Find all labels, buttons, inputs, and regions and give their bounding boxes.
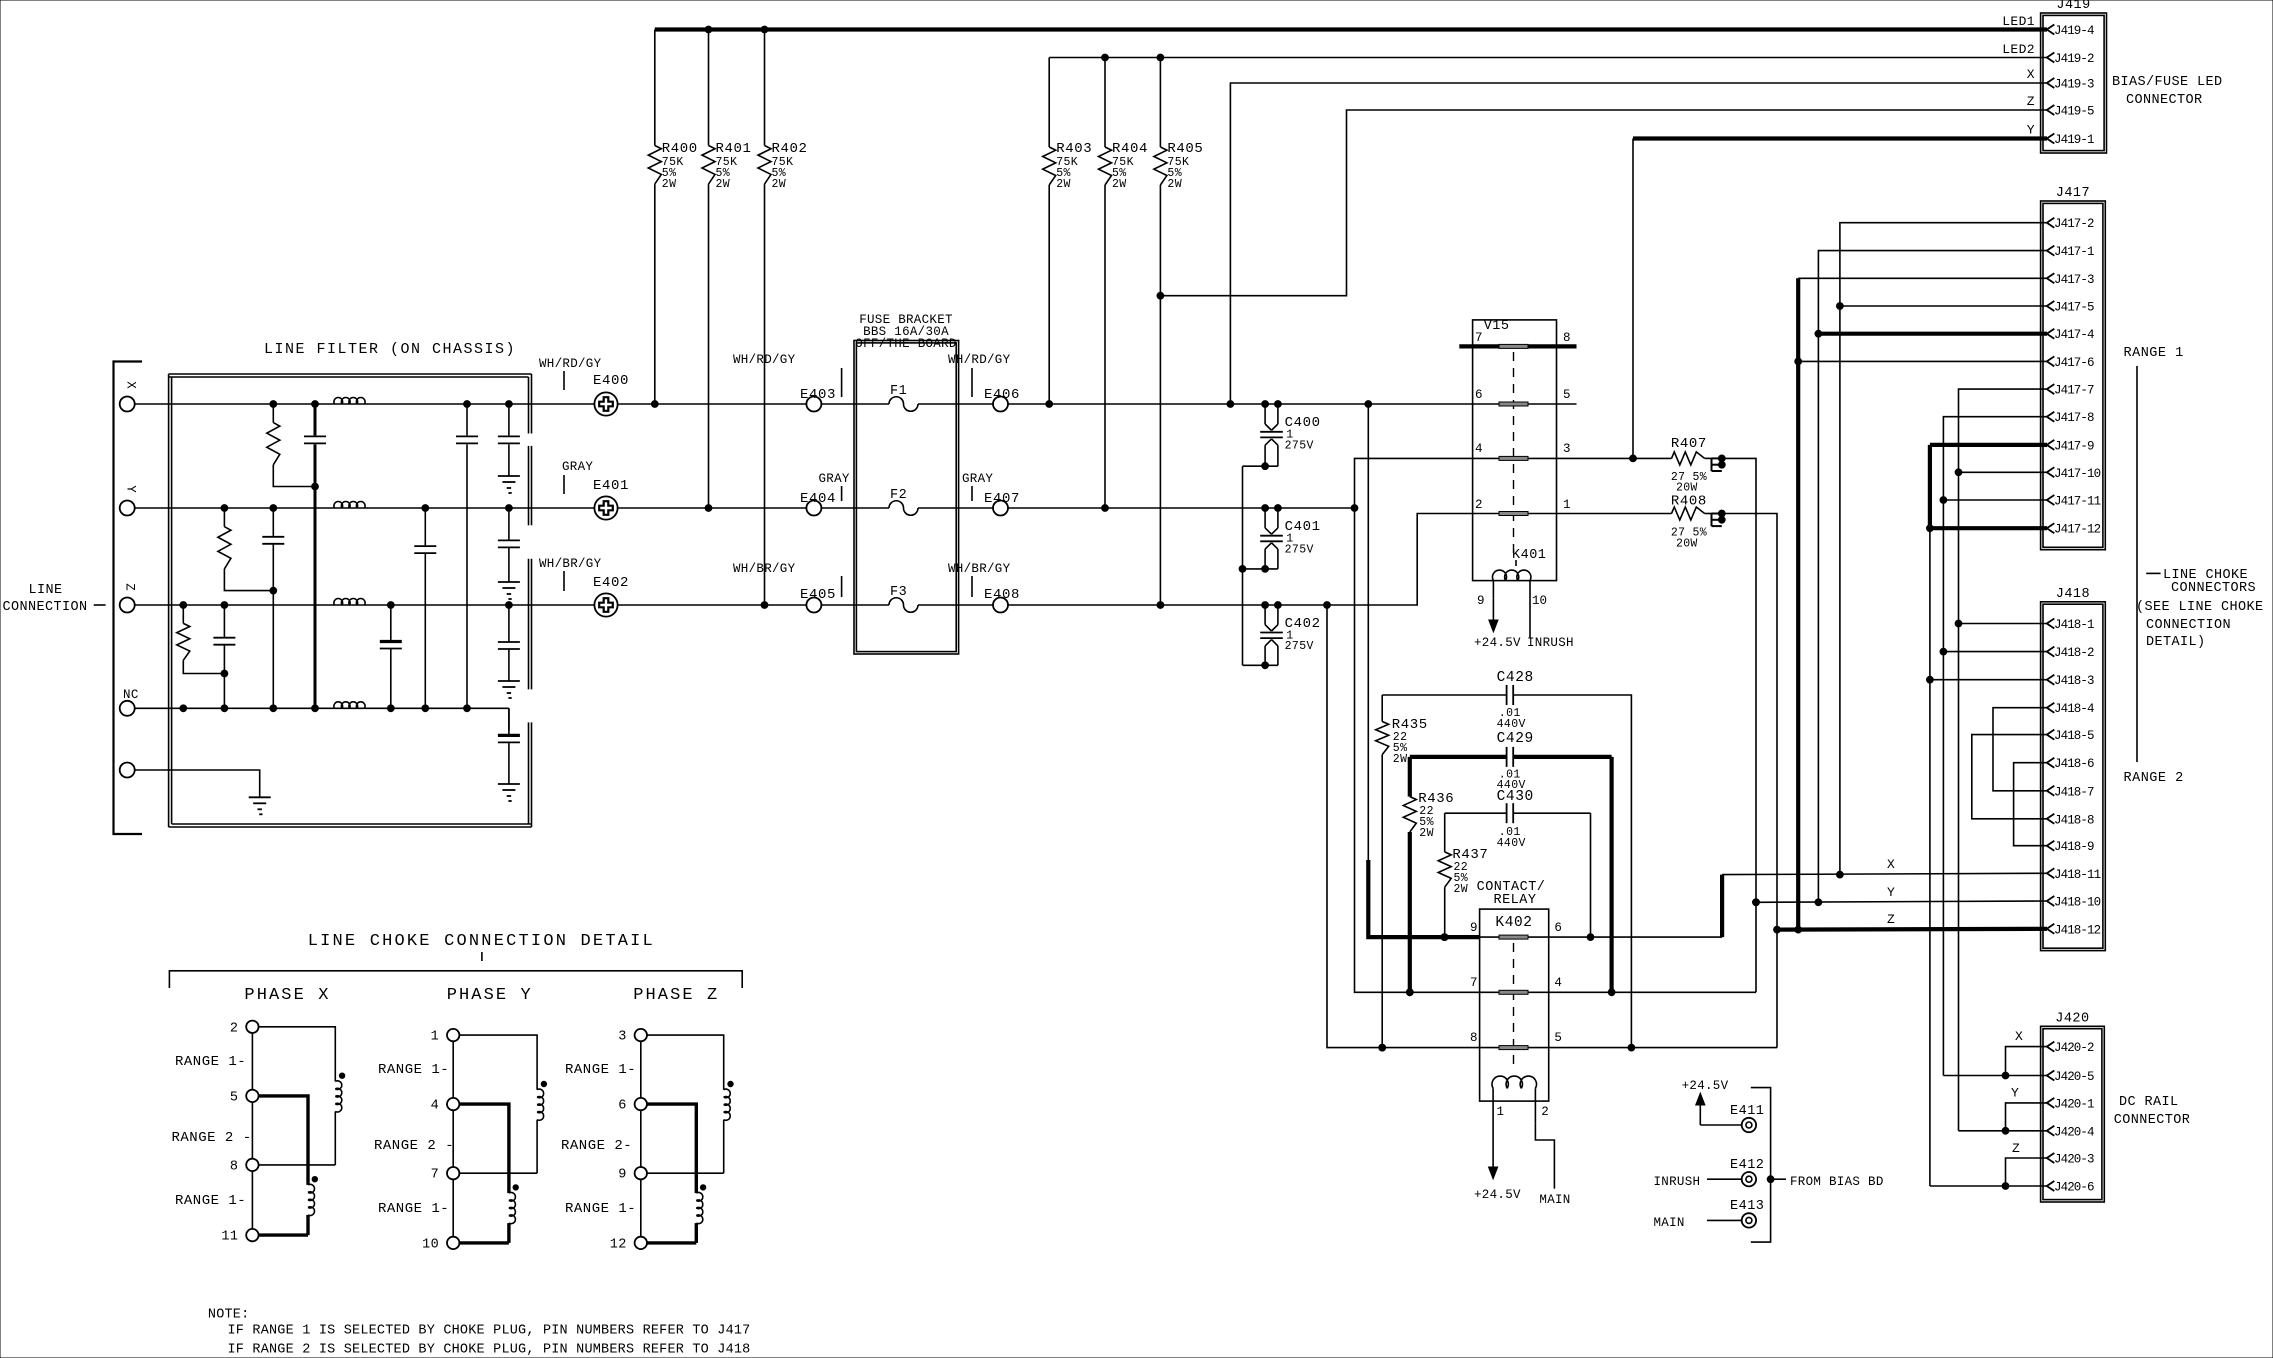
svg-text:J418-7: J418-7 (2054, 785, 2094, 799)
svg-text:J419-4: J419-4 (2054, 24, 2094, 38)
resistor filter Z (177, 605, 225, 674)
svg-text:OFF/THE BOARD: OFF/THE BOARD (855, 337, 956, 351)
capacitor filter NC-gnd (498, 708, 520, 784)
relay K402 dashed line (1513, 943, 1515, 1066)
node terminal Z (120, 583, 137, 612)
node terminal X (120, 381, 138, 411)
svg-text:J419: J419 (2056, 0, 2090, 13)
resistor R402 (758, 30, 808, 606)
svg-text:F1: F1 (890, 384, 907, 399)
node terminal GND-bottom (120, 763, 135, 778)
svg-text:DETAIL): DETAIL) (2146, 635, 2206, 650)
resistor R436 (1403, 757, 1454, 992)
wire Y to F2 (821, 507, 889, 509)
inductor phase Z choke (610, 1029, 733, 1253)
inductor filter Z (334, 599, 365, 605)
node J419-3 X junction (1227, 401, 1234, 408)
node Z-colB junction (221, 602, 228, 609)
svg-text:10: 10 (1532, 594, 1547, 608)
node Y-res to Y-cap junction (270, 587, 277, 594)
wire J419-1 Y lead (1633, 139, 2047, 459)
svg-text:J417-8: J417-8 (2054, 411, 2094, 425)
node R435-pin8row junction (1379, 1044, 1386, 1051)
wire J420-5 lead (1943, 1075, 2047, 1077)
svg-text:FROM BIAS BD: FROM BIAS BD (1790, 1175, 1884, 1189)
node C401 top leads (1262, 505, 1282, 512)
svg-text:J420-6: J420-6 (2054, 1181, 2094, 1195)
svg-text:R400: R400 (662, 141, 698, 157)
svg-text:RANGE 1-: RANGE 1- (378, 1062, 449, 1078)
connector J420 (2041, 1011, 2105, 1202)
capacitor filter Z-gnd (498, 605, 520, 681)
node K402 pin9 junction (1441, 934, 1448, 941)
capacitor filter Z-NC (213, 605, 235, 708)
svg-text:2W: 2W (1393, 753, 1408, 766)
node R405-J419-5 junction (1157, 292, 1164, 299)
svg-text:2W: 2W (716, 178, 731, 191)
svg-text:MAIN: MAIN (1539, 1193, 1570, 1207)
node Y-colC junction (270, 505, 277, 512)
node DC RAIL CONNECTOR label (2114, 1095, 2191, 1128)
node terminal E403 (733, 353, 842, 412)
node Y-cap NC junction (270, 705, 277, 712)
relay V15 contact 7-8 (1459, 331, 1576, 348)
svg-text:R404: R404 (1112, 141, 1148, 157)
wire Z to K402 pin8 (1327, 605, 1480, 1048)
svg-text:WH/RD/GY: WH/RD/GY (539, 357, 602, 371)
node +24.5V E411 source (1682, 1079, 1729, 1125)
svg-text:6: 6 (1475, 388, 1483, 402)
wire J418-1 lead (1959, 623, 2048, 625)
svg-text:J419-3: J419-3 (2054, 78, 2094, 92)
fuse F1 (889, 384, 918, 411)
node X-colC junction (270, 401, 277, 408)
svg-text:J419-1: J419-1 (2054, 133, 2094, 147)
node Z-colA junction (180, 602, 187, 609)
wire V15 pin3 to R407 (1557, 457, 1672, 459)
svg-text:WH/BR/GY: WH/BR/GY (948, 562, 1011, 576)
svg-text:9: 9 (1470, 921, 1478, 935)
node terminal E412 (1730, 1158, 1764, 1186)
svg-text:J418-3: J418-3 (2054, 674, 2094, 688)
wire K401 pin10 INRUSH (1527, 598, 1574, 650)
resistor R404 (1099, 58, 1149, 509)
svg-text:R405: R405 (1167, 141, 1203, 157)
svg-text:IF RANGE 1 IS SELECTED BY CHOK: IF RANGE 1 IS SELECTED BY CHOKE PLUG, PI… (228, 1324, 751, 1339)
svg-text:6: 6 (1554, 921, 1562, 935)
node R400-X junction (651, 401, 658, 408)
node J417-4 junction (1815, 330, 1822, 337)
connector J417 (2041, 186, 2106, 550)
wire J418-4 to J418-7 (1993, 708, 2047, 791)
svg-text:2: 2 (1475, 498, 1483, 512)
resistor R408 (1671, 494, 1712, 551)
svg-text:J417-2: J417-2 (2054, 217, 2094, 231)
svg-text:J418-9: J418-9 (2054, 840, 2094, 854)
svg-text:9: 9 (618, 1168, 627, 1183)
node C430-pin6row junction (1587, 934, 1594, 941)
svg-text:MAIN: MAIN (1654, 1216, 1685, 1230)
node Xrow-J417 junction (1837, 871, 1844, 878)
jumper R408 block (1712, 510, 1726, 526)
svg-text:11: 11 (221, 1230, 238, 1245)
inductor phase X choke (221, 1021, 344, 1245)
node Y-colH junction (506, 505, 513, 512)
wire chassis bottom (135, 770, 260, 797)
svg-text:V15: V15 (1484, 319, 1510, 334)
relay coil K402 (1492, 1076, 1549, 1123)
wire C401 bottom (1243, 568, 1278, 570)
node C400 top leads (1262, 401, 1282, 408)
wire F1 to E406 (918, 403, 993, 405)
resistor R405 (1154, 58, 1204, 606)
node X-colD junction (312, 401, 319, 408)
node PHASE Y title (447, 986, 533, 1005)
wire C402 bottom (1243, 664, 1278, 666)
wire bias bracket (1751, 1088, 1771, 1243)
wire X E400-E403 (618, 403, 806, 405)
wire K402 pin5 row (1549, 1047, 1777, 1049)
node RANGE 1 label (2124, 346, 2184, 361)
svg-text:2W: 2W (1167, 178, 1182, 191)
capacitor C400 (1260, 404, 1320, 466)
svg-text:E406: E406 (984, 387, 1020, 403)
node phase X RANGE labels (172, 1054, 252, 1209)
ground filter Z (498, 681, 520, 698)
svg-text:3: 3 (618, 1030, 627, 1045)
svg-text:RANGE 1: RANGE 1 (2124, 346, 2184, 361)
node terminal E407 (962, 472, 1020, 516)
svg-text:GRAY: GRAY (819, 472, 850, 486)
wire NC corner cap lead (508, 708, 510, 730)
svg-text:2W: 2W (1454, 883, 1469, 896)
svg-text:E407: E407 (984, 491, 1020, 507)
wire J417-4 stub (1818, 332, 2047, 336)
svg-text:J418-2: J418-2 (2054, 646, 2094, 660)
svg-text:J417-4: J417-4 (2054, 328, 2094, 342)
node Y end junction (1351, 505, 1358, 512)
svg-text:2: 2 (1541, 1105, 1549, 1119)
wire C400 bottom (1243, 465, 1278, 467)
relay K402 contact 9-6 (1470, 921, 1562, 939)
svg-text:RANGE 2-: RANGE 2- (561, 1138, 632, 1154)
svg-text:WH/BR/GY: WH/BR/GY (539, 557, 602, 571)
node terminal Y (120, 485, 138, 515)
ground filter X (498, 476, 520, 493)
wire J420-1 lead (2006, 1086, 2048, 1131)
wire LED2 bus (1049, 57, 2047, 59)
wire NC line (135, 707, 509, 709)
svg-text:DC RAIL: DC RAIL (2119, 1095, 2179, 1110)
svg-text:X: X (1887, 857, 1895, 872)
svg-text:J417-9: J417-9 (2054, 439, 2094, 453)
node Y-cap2 NC junction (422, 705, 429, 712)
node J417-6 junction (1795, 358, 1802, 365)
svg-text:10: 10 (422, 1237, 439, 1252)
capacitor C428 (1382, 670, 1631, 1048)
fuse F3 (889, 585, 918, 612)
node terminal E406 (948, 353, 1020, 412)
wire J420-2 lead (2006, 1029, 2048, 1076)
node LED1-R401 junction (705, 26, 712, 33)
svg-text:(SEE LINE CHOKE: (SEE LINE CHOKE (2136, 600, 2264, 615)
node LINE FILTER title (264, 341, 516, 358)
wire X phase line (135, 403, 594, 405)
node terminal E404 (800, 472, 850, 516)
svg-text:LINE FILTER (ON CHASSIS): LINE FILTER (ON CHASSIS) (264, 341, 516, 358)
svg-text:J420-4: J420-4 (2054, 1125, 2094, 1139)
node BIAS/FUSE LED CONNECTOR label (2112, 75, 2223, 108)
wire line-connection bracket (114, 362, 143, 835)
node J418-3 junction (1927, 676, 1934, 683)
node J418-2 junction (1940, 648, 1947, 655)
svg-text:C430: C430 (1497, 789, 1534, 805)
node K402 pin8 junction (1379, 1044, 1386, 1051)
svg-text:J417-6: J417-6 (2054, 356, 2094, 370)
line filter enclosure box (169, 374, 532, 827)
node X-cap2 NC junction (464, 705, 471, 712)
node C402 bottom junction (1262, 662, 1269, 669)
node K402 pin7 junction (1406, 989, 1413, 996)
svg-text:WH/RD/GY: WH/RD/GY (948, 353, 1011, 367)
svg-text:E403: E403 (800, 387, 836, 403)
node X-colH junction (506, 401, 513, 408)
svg-text:INRUSH: INRUSH (1654, 1175, 1701, 1189)
node LINE CONNECTION label (2, 583, 105, 615)
svg-text:3: 3 (1563, 442, 1571, 456)
wire Z E402-E405 (618, 604, 806, 606)
wire R407 output (1722, 458, 1756, 992)
node J418-1 junction (1955, 620, 1962, 627)
svg-text:4: 4 (1475, 442, 1483, 456)
svg-text:LED1: LED1 (2002, 14, 2035, 29)
svg-text:5: 5 (1554, 1031, 1562, 1045)
node RANGE 2 label (2124, 771, 2184, 786)
node R436-pin7row junction (1406, 989, 1413, 996)
capacitor C402 (1260, 605, 1320, 665)
node J419-1 pin3 junction (1630, 455, 1637, 462)
svg-text:Y: Y (2011, 1086, 2019, 1101)
node Zrow-J417 junction (1795, 926, 1802, 933)
svg-text:NC: NC (123, 688, 139, 702)
wire J418-3 lead (1930, 679, 2047, 681)
node Z-cap2 NC junction (387, 705, 394, 712)
wire J417-9 lead (1930, 445, 2047, 680)
relay V15 contact 4-3 (1355, 442, 1571, 992)
svg-text:E402: E402 (593, 575, 629, 591)
svg-text:CONNECTOR: CONNECTOR (2114, 1113, 2191, 1128)
node terminal E411 (1730, 1104, 1764, 1132)
relay K402 contact 8-5 (1470, 1031, 1562, 1050)
svg-text:6: 6 (618, 1099, 627, 1114)
node C400 bottom junction (1262, 463, 1269, 470)
wire K402 pin6 row (1549, 875, 1722, 938)
wire Z row to J418-12 (1777, 912, 2047, 930)
svg-text:J417-7: J417-7 (2054, 384, 2094, 398)
svg-text:E408: E408 (984, 587, 1020, 603)
resistor filter Y (218, 508, 273, 591)
jumper R407 block (1712, 455, 1726, 471)
svg-text:Z: Z (123, 583, 137, 591)
svg-text:J418-6: J418-6 (2054, 757, 2094, 771)
capacitor C429 (1410, 731, 1612, 992)
svg-text:J418-1: J418-1 (2054, 618, 2094, 632)
node MAIN label (1654, 1216, 1742, 1230)
node Z-colE junction (387, 602, 394, 609)
node X-res to X-cap junction (312, 483, 319, 490)
svg-text:R407: R407 (1671, 436, 1707, 452)
wire J417-11 stub (1943, 499, 2047, 501)
svg-text:CONNECTION: CONNECTION (2146, 618, 2231, 633)
node Y-colF junction (422, 505, 429, 512)
wire J417-3 lead (1798, 278, 2047, 929)
node Z-colH junction (506, 602, 513, 609)
wire F3 to E408 (918, 604, 993, 606)
svg-text:12: 12 (610, 1237, 627, 1252)
svg-text:J420-3: J420-3 (2054, 1153, 2094, 1167)
svg-text:J419-5: J419-5 (2054, 105, 2094, 119)
wire F2 to E407 (918, 507, 993, 509)
wire J418-2 lead (1943, 651, 2047, 653)
node J420-6 junction (2002, 1183, 2009, 1190)
svg-text:CONNECTORS: CONNECTORS (2171, 581, 2256, 596)
svg-text:LINE: LINE (28, 583, 62, 598)
wire J417-6 stub (1798, 360, 2047, 362)
svg-text:J418-10: J418-10 (2054, 896, 2101, 910)
node PHASE Z title (633, 986, 719, 1005)
node LED2-R404 junction (1102, 54, 1109, 61)
svg-text:Z: Z (2027, 94, 2035, 109)
wire X to K402 pin9 (1368, 404, 1479, 937)
wire Y row to J418-10 (1756, 885, 2047, 902)
wire Z phase line (135, 604, 594, 606)
svg-text:2W: 2W (772, 178, 787, 191)
resistor R435 (1376, 695, 1428, 1048)
resistor filter X (267, 404, 315, 487)
svg-text:RANGE 2 -: RANGE 2 - (374, 1138, 454, 1154)
relay V15 box (1473, 319, 1557, 581)
svg-text:J417-3: J417-3 (2054, 273, 2094, 287)
node terminal E408 (948, 562, 1020, 613)
node J417-12 junction (1927, 525, 1934, 532)
svg-text:5: 5 (230, 1090, 239, 1105)
node INRUSH label (1654, 1175, 1742, 1189)
wire J417-1 lead (1818, 251, 2047, 903)
wire J418-3 down (1929, 680, 1931, 1186)
ground chassis (249, 797, 271, 814)
svg-text:440V: 440V (1497, 837, 1526, 850)
svg-text:RANGE 1-: RANGE 1- (175, 1193, 246, 1209)
capacitor C430 (1445, 789, 1591, 937)
capacitor filter Z-NC 2 (380, 605, 402, 708)
inductor phase Y choke (422, 1029, 546, 1253)
svg-text:X: X (2015, 1029, 2023, 1044)
connector J418 (2041, 587, 2106, 951)
svg-text:275V: 275V (1285, 640, 1314, 653)
svg-text:8: 8 (1470, 1031, 1478, 1045)
relay V15 contact 6-5 (1475, 388, 1577, 406)
relay V15 contact 2-1 (1475, 498, 1571, 516)
svg-text:PHASE Z: PHASE Z (633, 986, 719, 1005)
node J420-4 junction (2002, 1127, 2009, 1134)
node terminal E402 (539, 557, 629, 617)
node J417-11 junction (1940, 497, 1947, 504)
wire J417-12 stub (1930, 526, 2047, 530)
wire Y phase line (135, 507, 594, 509)
node LED2-R405 junction (1157, 54, 1164, 61)
resistor R401 (702, 30, 752, 509)
relay coil K401 (1477, 548, 1547, 608)
svg-text:275V: 275V (1285, 543, 1314, 556)
svg-text:4: 4 (431, 1099, 440, 1114)
svg-text:RANGE 2: RANGE 2 (2124, 771, 2184, 786)
wire J420-6 lead (1930, 1185, 2047, 1187)
svg-text:J417-5: J417-5 (2054, 301, 2094, 315)
svg-text:J417-1: J417-1 (2054, 245, 2094, 259)
wire R408 output (1722, 514, 1777, 1048)
svg-text:2W: 2W (1056, 178, 1071, 191)
capacitor filter X-NC (304, 404, 326, 708)
wire LED1 bus (655, 27, 2047, 31)
node terminal E413 (1730, 1199, 1764, 1228)
wire J417-7 lead (1959, 389, 2048, 623)
svg-text:X: X (2027, 67, 2035, 82)
svg-text:E411: E411 (1730, 1104, 1764, 1119)
node terminal E400 (539, 357, 629, 416)
node J417-10 junction (1955, 469, 1962, 476)
wire J417-2 lead (1840, 223, 2047, 875)
node Z-res to Z-cap junction (221, 670, 228, 677)
node PHASE X title (244, 986, 330, 1005)
svg-text:J418-4: J418-4 (2054, 702, 2094, 716)
relay K402 box (1480, 909, 1549, 1101)
svg-text:F3: F3 (890, 585, 907, 600)
wire J419-3 X lead (1230, 83, 2047, 404)
svg-text:C429: C429 (1497, 731, 1534, 747)
svg-text:R403: R403 (1056, 141, 1092, 157)
wire J418-2 down (1942, 652, 1944, 1076)
resistor R407 (1671, 436, 1712, 495)
node LED1-R402 junction (761, 26, 768, 33)
svg-text:Z: Z (2012, 1141, 2020, 1156)
svg-text:E413: E413 (1730, 1199, 1764, 1214)
wire J420-4 lead (1959, 1130, 2048, 1132)
node R401-Y junction (705, 505, 712, 512)
svg-text:J417-11: J417-11 (2054, 495, 2101, 509)
node X-colG junction (464, 401, 471, 408)
svg-text:2W: 2W (1112, 178, 1127, 191)
wire X line to V15 pin6 (1008, 403, 1499, 405)
svg-text:1: 1 (431, 1030, 440, 1045)
svg-text:R408: R408 (1671, 494, 1707, 510)
node phase Z RANGE labels (561, 1062, 636, 1217)
wire K402 pin1 +24.5V (1474, 1123, 1521, 1203)
node Z-K402 junction (1324, 602, 1331, 609)
wire J418-5 to J418-8 (1972, 735, 2047, 819)
node X-K402 junction (1365, 401, 1372, 408)
svg-text:440V: 440V (1497, 718, 1526, 731)
svg-text:2W: 2W (662, 178, 677, 191)
svg-text:R401: R401 (716, 141, 752, 157)
node NOTE text (208, 1308, 751, 1358)
capacitor C401 (1260, 508, 1320, 569)
connector J419 (2041, 0, 2107, 153)
svg-text:RANGE 2 -: RANGE 2 - (172, 1130, 252, 1146)
wire J417-5 stub (1840, 305, 2047, 307)
svg-text:J417-10: J417-10 (2054, 467, 2101, 481)
svg-text:X: X (124, 381, 138, 389)
wire K402 pin2 MAIN (1535, 1123, 1570, 1207)
